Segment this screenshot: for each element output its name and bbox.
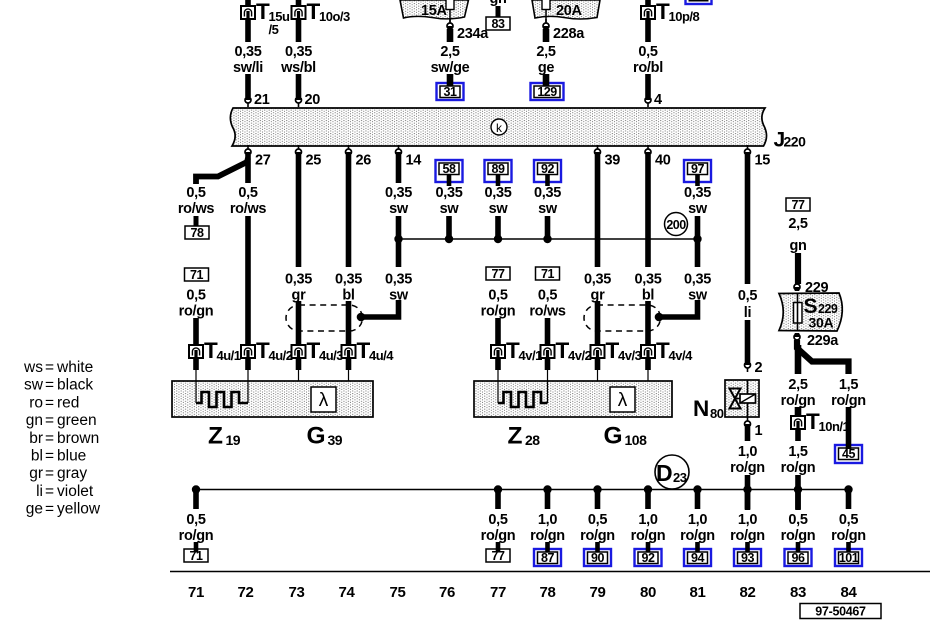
pin 234a terminal bbox=[447, 19, 453, 30]
svg-text:0,5: 0,5 bbox=[839, 512, 858, 528]
svg-text:39: 39 bbox=[328, 432, 343, 448]
svg-text:ro/bl: ro/bl bbox=[633, 60, 663, 76]
label 0,35 sw x449 bbox=[435, 185, 462, 217]
svg-text:ro/gn: ro/gn bbox=[781, 528, 816, 544]
label 0,5 ro/gn left bbox=[179, 288, 214, 320]
svg-text:4u/3: 4u/3 bbox=[319, 348, 343, 363]
connection designation circle 200 bbox=[665, 213, 688, 236]
svg-text:ro: ro bbox=[29, 394, 43, 411]
svg-text:0,35: 0,35 bbox=[634, 272, 661, 288]
svg-text:ro/gn: ro/gn bbox=[481, 304, 516, 320]
svg-text:gn: gn bbox=[789, 238, 806, 254]
junction ground terminal 94 bbox=[693, 485, 701, 493]
svg-text:0,35: 0,35 bbox=[684, 272, 711, 288]
svg-text:77: 77 bbox=[792, 198, 805, 212]
svg-text:81: 81 bbox=[689, 584, 705, 601]
wire pin25 wire bbox=[296, 155, 302, 267]
svg-text:1,0: 1,0 bbox=[688, 512, 707, 528]
svg-text:ro/gn: ro/gn bbox=[781, 393, 816, 409]
wire ground stub 94 bbox=[695, 489, 701, 509]
wire ground stub 77 bbox=[495, 489, 501, 509]
wire 0,5 ro/ws to T4u/2 bbox=[245, 216, 251, 346]
svg-text:80: 80 bbox=[640, 584, 656, 601]
wire ground stub 87 bbox=[545, 489, 551, 509]
wire ground stub 92 bbox=[645, 489, 651, 509]
svg-text:sw: sw bbox=[489, 201, 509, 217]
svg-text:0,35: 0,35 bbox=[385, 185, 412, 201]
svg-text:yellow: yellow bbox=[57, 501, 101, 518]
connector T4v/2 bbox=[541, 338, 592, 363]
svg-text:2,5: 2,5 bbox=[440, 44, 459, 60]
svg-text:1,0: 1,0 bbox=[738, 512, 757, 528]
destination box 77 ground bbox=[486, 549, 510, 563]
svg-text:sw: sw bbox=[24, 377, 44, 394]
connector T4v/4 bbox=[641, 338, 693, 363]
wire pin27 wire upper bbox=[245, 155, 251, 183]
connector T15u /5 bbox=[241, 0, 290, 37]
wire pin40 wire bbox=[645, 155, 651, 267]
destination box 71 ground bbox=[184, 549, 208, 563]
svg-text:89: 89 bbox=[492, 162, 505, 176]
svg-text:108: 108 bbox=[625, 432, 648, 448]
wire 0,35 sw to rail x498 bbox=[495, 216, 501, 239]
wire stub to box 87 bbox=[545, 542, 550, 553]
svg-text:21: 21 bbox=[254, 92, 270, 108]
destination box 90 ground bbox=[584, 549, 611, 566]
wire N80 out bbox=[745, 427, 751, 441]
svg-text:ro/gn: ro/gn bbox=[831, 393, 866, 409]
junction ground terminal 101 bbox=[844, 485, 852, 493]
svg-text:ws: ws bbox=[23, 359, 43, 376]
heater element Z19 leads bbox=[195, 381, 197, 403]
junction rail junction x547.5 bbox=[543, 235, 551, 243]
label 0,5 ro/ws left bbox=[178, 185, 215, 217]
wire pin26 wire bbox=[346, 155, 352, 267]
svg-text:ro/gn: ro/gn bbox=[179, 304, 214, 320]
svg-text:ro/ws: ro/ws bbox=[178, 201, 215, 217]
destination box 93 ground bbox=[734, 549, 761, 566]
wire stub to box 90 bbox=[595, 542, 600, 553]
svg-text:k: k bbox=[496, 121, 503, 135]
svg-text:ro/gn: ro/gn bbox=[680, 528, 715, 544]
svg-text:92: 92 bbox=[642, 551, 655, 565]
label 0,5 ro/gn ground 101 bbox=[831, 512, 866, 544]
svg-text:4u/2: 4u/2 bbox=[269, 348, 293, 363]
svg-text:ro/gn: ro/gn bbox=[530, 528, 565, 544]
label 0,35 gr right bbox=[584, 272, 611, 304]
connector T4u/2 bbox=[241, 338, 293, 363]
junction ground terminal 96 bbox=[794, 485, 802, 493]
svg-text:1,0: 1,0 bbox=[538, 512, 557, 528]
wire 2,5 fuse lead bbox=[447, 29, 454, 42]
junction rail junction x398.5 bbox=[394, 235, 402, 243]
svg-text:76: 76 bbox=[439, 584, 455, 601]
svg-text:71: 71 bbox=[188, 584, 204, 601]
label 2,5 ro/gn bbox=[781, 377, 816, 409]
solenoid valve N80 bbox=[725, 380, 759, 417]
wire 2,5 fuse lead b bbox=[543, 29, 550, 42]
svg-text:bl: bl bbox=[31, 448, 43, 465]
wire pin14 wire bbox=[396, 155, 402, 183]
svg-text:0,35: 0,35 bbox=[684, 185, 711, 201]
svg-text:10p/8: 10p/8 bbox=[669, 9, 700, 24]
svg-text:4u/1: 4u/1 bbox=[217, 348, 241, 363]
svg-text:10o/3: 10o/3 bbox=[319, 9, 350, 24]
lead into Z19/G39 bbox=[296, 357, 302, 370]
svg-text:15: 15 bbox=[755, 153, 771, 169]
svg-text:4u/4: 4u/4 bbox=[369, 348, 394, 363]
wire ground stub 93 bbox=[745, 489, 751, 509]
svg-text:violet: violet bbox=[57, 483, 94, 500]
wire pin39 wire bbox=[595, 155, 601, 267]
wire ground stub 90 bbox=[595, 489, 601, 509]
lead into Z28/G108 bbox=[595, 357, 601, 370]
svg-text:87: 87 bbox=[541, 551, 554, 565]
junction rail junction x449 bbox=[445, 235, 453, 243]
svg-text:220: 220 bbox=[784, 134, 807, 150]
svg-text:25: 25 bbox=[306, 153, 322, 169]
svg-text:4v/3: 4v/3 bbox=[618, 348, 642, 363]
svg-text:229a: 229a bbox=[807, 333, 839, 349]
svg-text:=: = bbox=[45, 394, 54, 411]
wire 0,35 gr to T4v/3 bbox=[595, 301, 601, 346]
lead into Z19/G39 bbox=[346, 357, 352, 370]
junction ground terminal 93 bbox=[743, 485, 751, 493]
svg-text:gr: gr bbox=[29, 465, 43, 482]
label G39 bbox=[307, 423, 343, 450]
control unit bus bar J220 bbox=[230, 108, 766, 146]
label 2,5 sw/ge bbox=[431, 44, 470, 76]
connector T4v/1 bbox=[491, 338, 542, 363]
destination box 71 upper bbox=[185, 268, 209, 282]
destination box 77 top right bbox=[786, 198, 810, 212]
label 0,5 li bbox=[738, 288, 757, 321]
svg-text:0,5: 0,5 bbox=[488, 288, 507, 304]
svg-text:58: 58 bbox=[443, 162, 456, 176]
label 0,35 sw x547.5 bbox=[534, 185, 561, 217]
svg-text:82: 82 bbox=[739, 584, 755, 601]
svg-text:84: 84 bbox=[840, 584, 857, 601]
wire 1,5 ro/gn to rail bbox=[795, 475, 801, 510]
label 0,35 sw x498 bbox=[484, 185, 511, 217]
svg-text:red: red bbox=[57, 394, 79, 411]
destination box 96 ground bbox=[785, 549, 812, 566]
wire stub to box 94 bbox=[695, 542, 700, 553]
label 0,5 ro/bl bbox=[633, 44, 663, 76]
svg-text:ro/gn: ro/gn bbox=[831, 528, 866, 544]
color code legend bbox=[23, 359, 101, 518]
label G108 bbox=[604, 423, 648, 450]
svg-text:ge: ge bbox=[538, 60, 555, 76]
wire stub under 97 bbox=[695, 175, 700, 186]
connection designation circle D23 bbox=[655, 455, 689, 489]
svg-text:23: 23 bbox=[673, 470, 687, 485]
svg-text:Z: Z bbox=[508, 423, 523, 450]
destination box 129 bbox=[531, 83, 564, 100]
svg-text:78: 78 bbox=[539, 584, 555, 601]
pin 27 terminal bbox=[245, 145, 251, 156]
svg-text:39: 39 bbox=[605, 153, 621, 169]
svg-text:ro/gn: ro/gn bbox=[730, 528, 765, 544]
pin 15 terminal bbox=[745, 145, 751, 156]
svg-text:gn: gn bbox=[489, 0, 506, 7]
wire 0,35 sw col75 mid bbox=[396, 216, 402, 267]
svg-text:ro/gn: ro/gn bbox=[781, 460, 816, 476]
wire 2,5 gn wire bbox=[795, 253, 801, 284]
label 0,35 sw col81 lower bbox=[684, 272, 711, 304]
svg-text:ro/ws: ro/ws bbox=[529, 304, 566, 320]
svg-text:sw: sw bbox=[389, 201, 409, 217]
label 0,35 sw col75 lower bbox=[385, 272, 412, 304]
component box Z28 G108 bbox=[474, 381, 672, 417]
wire 2,5 ro/gn upper bbox=[795, 345, 802, 374]
svg-text:0,5: 0,5 bbox=[788, 512, 807, 528]
lead into Z28/G108 bbox=[645, 357, 651, 370]
svg-text:79: 79 bbox=[589, 584, 605, 601]
junction shield junction right bbox=[655, 313, 664, 322]
svg-text:0,35: 0,35 bbox=[435, 185, 462, 201]
wire shield elbow right bbox=[659, 300, 698, 317]
wire 2,5 ro/gn to T10n1 bbox=[795, 407, 802, 417]
wire 0,5 ro/gn to T4v/1 bbox=[495, 318, 501, 346]
svg-text:/5: /5 bbox=[269, 22, 279, 37]
svg-text:ro/gn: ro/gn bbox=[481, 528, 516, 544]
fuse S229 30A bbox=[779, 293, 842, 331]
svg-text:0,35: 0,35 bbox=[534, 185, 561, 201]
connector T4u/4 bbox=[342, 338, 395, 363]
wire into T10o/3 bbox=[296, 0, 302, 7]
wire 0,35 sw to rail x547.5 bbox=[545, 216, 551, 239]
pin 228a terminal bbox=[543, 19, 549, 30]
wire stub under 58 bbox=[447, 175, 452, 186]
svg-text:1,0: 1,0 bbox=[738, 444, 757, 460]
pin 14 terminal bbox=[396, 145, 402, 156]
connector T4u/3 bbox=[292, 338, 344, 363]
svg-text:ws/bl: ws/bl bbox=[280, 60, 316, 76]
svg-text:0,5: 0,5 bbox=[638, 44, 657, 60]
wire shield elbow left bbox=[361, 300, 399, 317]
label 1,5 ro/gn col83 bbox=[781, 444, 816, 476]
lead into Z19/G39 bbox=[193, 357, 199, 370]
svg-text:sw: sw bbox=[538, 201, 558, 217]
wire stub to box 71 bbox=[194, 542, 199, 553]
svg-text:G: G bbox=[307, 423, 326, 450]
junction ground terminal 92 bbox=[644, 485, 652, 493]
label 0,35 ws/bl bbox=[280, 44, 316, 76]
label 1,0 ro/gn N80 bbox=[730, 444, 765, 476]
junction shield junction left bbox=[357, 313, 366, 322]
wire 0,5 ro/bl upper bbox=[645, 19, 651, 42]
svg-text:D: D bbox=[656, 460, 673, 486]
label Z19 bbox=[208, 423, 241, 450]
svg-text:83: 83 bbox=[492, 17, 505, 31]
destination box top right (cut off) bbox=[686, 0, 712, 4]
label 0,5 ro/ws main bbox=[230, 185, 267, 217]
bus internal designation k bbox=[491, 119, 507, 135]
svg-text:white: white bbox=[56, 359, 93, 376]
svg-text:2: 2 bbox=[755, 360, 763, 376]
wire stub to box 77 bbox=[496, 542, 501, 553]
svg-text:=: = bbox=[45, 377, 54, 394]
destination box 97 bbox=[684, 160, 711, 182]
junction rail junction x697.5 bbox=[693, 235, 701, 243]
svg-text:=: = bbox=[45, 501, 54, 518]
wire 0,35 ws/bl lower bbox=[296, 74, 302, 97]
wire ground stub 96 bbox=[795, 489, 801, 509]
svg-text:br: br bbox=[29, 430, 43, 447]
label 0,35 sw col75 upper bbox=[385, 185, 412, 217]
junction ground terminal 71 bbox=[192, 485, 200, 493]
wire 2,5 sw/ge stub bbox=[447, 74, 454, 87]
wire gn stub bbox=[496, 6, 501, 17]
pin 40 terminal bbox=[645, 145, 651, 156]
shield capsule right bbox=[584, 305, 661, 331]
svg-text:1,5: 1,5 bbox=[839, 377, 858, 393]
svg-text:10n/1: 10n/1 bbox=[819, 419, 850, 434]
svg-text:77: 77 bbox=[492, 267, 505, 281]
svg-text:96: 96 bbox=[792, 551, 805, 565]
wire into T10p/8 bbox=[645, 0, 651, 7]
label 0,35 bl right bbox=[634, 272, 661, 304]
pin 2 terminal N80 bbox=[745, 361, 751, 372]
svg-text:90: 90 bbox=[591, 551, 604, 565]
lambda sensor symbol G108 bbox=[610, 387, 635, 412]
svg-text:0,35: 0,35 bbox=[285, 44, 312, 60]
svg-text:2,5: 2,5 bbox=[788, 377, 807, 393]
label 0,5 ro/gn ground 90 bbox=[580, 512, 615, 544]
wire 0,35 sw/li lower bbox=[245, 74, 251, 97]
wire 1,5 ro/gn below T10n1 bbox=[795, 429, 801, 441]
svg-text:40: 40 bbox=[655, 153, 671, 169]
svg-text:4: 4 bbox=[654, 92, 662, 108]
svg-text:4v/1: 4v/1 bbox=[519, 348, 543, 363]
ground rail bbox=[196, 489, 849, 491]
svg-text:Z: Z bbox=[208, 423, 223, 450]
destination box 58 bbox=[436, 160, 463, 182]
svg-text:N: N bbox=[693, 396, 709, 421]
svg-text:80: 80 bbox=[710, 406, 724, 421]
wire stub to 78 bbox=[194, 216, 199, 226]
label 2,5 gn bbox=[788, 216, 807, 254]
destination box 94 ground bbox=[684, 549, 711, 566]
label 1,5 ro/gn col84 bbox=[831, 377, 866, 409]
svg-text:sw: sw bbox=[440, 201, 460, 217]
destination box 89 bbox=[485, 160, 512, 182]
wire 0,35 bl to T4u/4 bbox=[346, 301, 352, 346]
svg-text:2,5: 2,5 bbox=[788, 216, 807, 232]
heater element Z28 leads bbox=[497, 381, 499, 403]
svg-text:101: 101 bbox=[839, 551, 859, 565]
svg-text:27: 27 bbox=[255, 153, 271, 169]
label 0,35 gr left bbox=[285, 272, 312, 304]
svg-text:26: 26 bbox=[356, 153, 372, 169]
svg-text:93: 93 bbox=[741, 551, 754, 565]
destination box 78 bbox=[185, 226, 209, 240]
shield capsule left bbox=[286, 305, 363, 331]
label 1,0 ro/gn ground 87 bbox=[530, 512, 565, 544]
svg-text:1: 1 bbox=[755, 423, 763, 439]
svg-text:0,5: 0,5 bbox=[238, 185, 257, 201]
connector T10o/3 bbox=[292, 0, 351, 24]
svg-text:4v/2: 4v/2 bbox=[568, 348, 592, 363]
destination box 83 bbox=[486, 17, 510, 31]
pin 26 terminal bbox=[346, 145, 352, 156]
heater element Z19 bbox=[196, 392, 248, 407]
wire 0,5 ro/ws to T4v/2 bbox=[545, 318, 551, 346]
wire stub to box 101 bbox=[846, 542, 851, 553]
destination box 31 bbox=[437, 83, 464, 100]
wire 0,35 sw col81 mid bbox=[695, 216, 701, 267]
svg-text:20: 20 bbox=[305, 92, 321, 108]
destination box 92 bbox=[534, 160, 561, 182]
svg-text:2,5: 2,5 bbox=[536, 44, 555, 60]
label J220 bbox=[774, 129, 807, 152]
pin 39 terminal bbox=[595, 145, 601, 156]
svg-text:=: = bbox=[45, 483, 54, 500]
svg-text:gn: gn bbox=[26, 412, 43, 429]
svg-text:sw: sw bbox=[688, 201, 708, 217]
label 0,35 bl left bbox=[335, 272, 362, 304]
label 1,0 ro/gn ground 92 bbox=[631, 512, 666, 544]
svg-text:129: 129 bbox=[537, 85, 557, 99]
svg-text:blue: blue bbox=[57, 448, 86, 465]
wire stub to box 96 bbox=[796, 542, 801, 553]
pin 20 terminal bbox=[296, 96, 302, 107]
svg-text:li: li bbox=[744, 305, 751, 321]
svg-text:black: black bbox=[57, 377, 93, 394]
svg-text:ro/gn: ro/gn bbox=[580, 528, 615, 544]
connector T10p/8 bbox=[641, 0, 700, 24]
svg-text:brown: brown bbox=[57, 430, 99, 447]
label 1,0 ro/gn ground 94 bbox=[680, 512, 715, 544]
svg-text:0,35: 0,35 bbox=[484, 185, 511, 201]
svg-text:ro/gn: ro/gn bbox=[631, 528, 666, 544]
svg-text:0,35: 0,35 bbox=[335, 272, 362, 288]
svg-text:74: 74 bbox=[338, 584, 355, 601]
svg-text:0,5: 0,5 bbox=[588, 512, 607, 528]
svg-text:0,5: 0,5 bbox=[738, 288, 757, 304]
component box Z19 G39 bbox=[172, 381, 373, 417]
label 0,35 sw/li bbox=[233, 44, 263, 76]
svg-text:45: 45 bbox=[842, 447, 855, 461]
lead into Z19/G39 bbox=[245, 357, 251, 370]
fuse holder 15A bbox=[400, 0, 469, 22]
svg-text:78: 78 bbox=[191, 226, 204, 240]
wire stub under 92 bbox=[545, 175, 550, 186]
destination box 77 mid bbox=[486, 267, 510, 281]
junction ground terminal 77 bbox=[494, 485, 502, 493]
wire 0,35 sw/li upper bbox=[245, 19, 251, 42]
label Z28 bbox=[508, 423, 541, 450]
wire 0,5 li lower bbox=[745, 320, 751, 362]
svg-text:ro/gn: ro/gn bbox=[730, 460, 765, 476]
svg-text:ro/ws: ro/ws bbox=[230, 201, 267, 217]
svg-text:0,35: 0,35 bbox=[285, 272, 312, 288]
label 0,35 sw col81 upper bbox=[684, 185, 711, 217]
svg-text:234a: 234a bbox=[457, 26, 489, 42]
wire 1,5 ro/gn to 45 bbox=[846, 407, 852, 449]
pin 21 terminal bbox=[245, 96, 251, 107]
svg-text:73: 73 bbox=[288, 584, 304, 601]
junction rail junction x498 bbox=[494, 235, 502, 243]
svg-text:ge: ge bbox=[26, 501, 43, 518]
destination box 87 ground bbox=[534, 549, 561, 566]
svg-text:94: 94 bbox=[691, 551, 704, 565]
label 0,5 ro/ws mid bbox=[529, 288, 566, 320]
diagram number box 97-50467 bbox=[800, 604, 881, 619]
svg-text:=: = bbox=[45, 359, 54, 376]
svg-text:72: 72 bbox=[237, 584, 253, 601]
